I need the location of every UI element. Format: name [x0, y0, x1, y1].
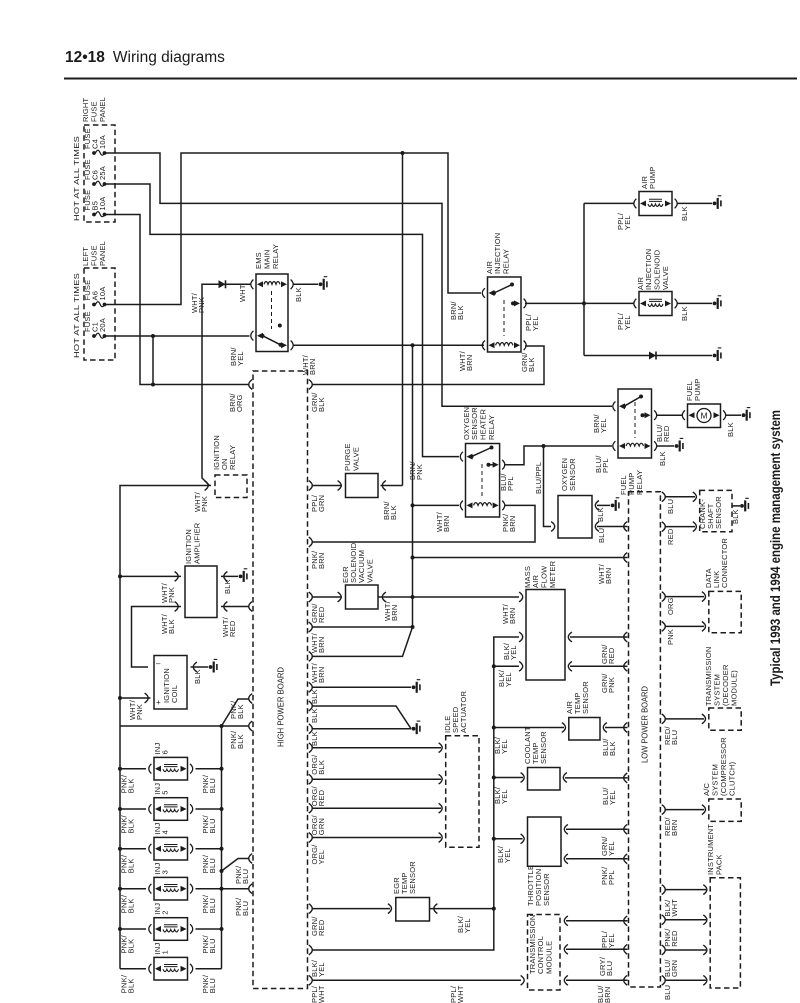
svg-text:BLK: BLK — [193, 669, 202, 684]
svg-text:RED: RED — [662, 425, 671, 442]
wire injector feed bus top — [120, 725, 250, 727]
svg-text:PNK: PNK — [197, 297, 206, 313]
svg-text:6: 6 — [160, 750, 169, 754]
svg-text:HOT AT ALL TIMES: HOT AT ALL TIMES — [72, 273, 81, 358]
fuel pump motor — [697, 409, 711, 423]
svg-text:RED: RED — [670, 930, 679, 947]
hpb terminals right — [309, 380, 313, 390]
wire BLK diagonal to ground 2 — [312, 706, 412, 729]
EMS relay contact — [257, 333, 263, 339]
svg-text:BRN: BRN — [308, 359, 317, 375]
fuse A6 10A — [92, 303, 96, 307]
svg-text:RED: RED — [607, 647, 616, 664]
wire oxygen sensor BLU to low power board — [597, 526, 628, 528]
throttle position sensor box — [528, 817, 562, 866]
diode (EMS coil) — [219, 280, 226, 288]
svg-text:VALVE: VALVE — [352, 447, 361, 471]
svg-text:1: 1 — [160, 950, 169, 954]
lpb terminals right — [662, 492, 666, 502]
wire EMS coil BLK to ground — [293, 283, 318, 285]
svg-text:RED: RED — [317, 789, 326, 806]
svg-text:BLU: BLU — [208, 778, 217, 793]
wire ORG/RED to idle speed actuator — [312, 778, 442, 780]
fuel pump relay contact — [619, 403, 625, 409]
wire PNK/BLU riser 1 — [222, 859, 250, 872]
svg-text:YEL: YEL — [504, 672, 513, 687]
wire lpb BLU to crankshaft sensor — [665, 496, 696, 498]
svg-text:RELAY: RELAY — [271, 244, 280, 269]
wire PPL/GRN to purge valve — [312, 485, 343, 487]
svg-text:BLK: BLK — [236, 704, 245, 719]
svg-text:+: + — [156, 698, 161, 707]
ground (air pump) — [713, 202, 717, 206]
svg-text:SENSOR: SENSOR — [408, 861, 417, 894]
wire lpb RED to crankshaft sensor — [665, 526, 696, 528]
svg-text:YEL: YEL — [317, 850, 326, 865]
fuel pump box — [688, 404, 721, 428]
svg-text:YEL: YEL — [317, 962, 326, 977]
oxygen heater relay coil — [467, 502, 473, 508]
wire INJ2 right — [196, 928, 222, 930]
svg-text:LEFT: LEFT — [81, 247, 90, 266]
wire GRN/RED to EGR temp sensor — [312, 908, 391, 910]
svg-text:20A: 20A — [98, 318, 107, 332]
svg-text:RED: RED — [317, 919, 326, 936]
svg-text:10A: 10A — [98, 197, 107, 211]
ground (fp relay coil) — [675, 444, 679, 448]
wire PNK/BLU riser 2 — [222, 888, 250, 890]
svg-text:BLU: BLU — [208, 938, 217, 953]
wire air temp BLU/BLK to lpb — [605, 727, 628, 729]
svg-text:BRN: BRN — [508, 516, 517, 532]
transmission control module box — [528, 915, 561, 991]
wire EGR temp BLK/YEL — [430, 908, 494, 910]
svg-text:BLK: BLK — [127, 858, 136, 873]
wire INJ2 left — [120, 928, 146, 930]
wire ORG/BLK to idle speed actuator — [312, 747, 442, 749]
wire GRN/BLK to air injection relay coil — [312, 346, 545, 385]
wire INJ5 left — [120, 808, 146, 810]
ground (amplifier) — [239, 575, 243, 579]
svg-text:BLK: BLK — [680, 306, 689, 321]
wire EGR valve WHT/BRN to mass air flow meter — [379, 596, 520, 598]
wire fuse B5 to high power board (BRN/ORG) — [105, 215, 250, 385]
svg-text:RED: RED — [666, 528, 675, 545]
wire INJ3 left — [120, 888, 146, 890]
svg-text:BLU: BLU — [605, 961, 614, 976]
wire GRN/RED to EGR solenoid vacuum valve — [312, 596, 343, 598]
wire fuel pump BLK to ground — [726, 414, 742, 416]
high power board box — [253, 371, 308, 989]
low power board box — [629, 492, 661, 987]
hpb terminals left — [249, 380, 253, 390]
ignition amplifier box — [185, 566, 217, 618]
wire maf GRN/RED to lpb — [570, 636, 628, 638]
svg-text:BLK: BLK — [608, 741, 617, 756]
svg-text:YEL: YEL — [503, 848, 512, 863]
wire solenoid valve BLK to ground — [677, 302, 712, 304]
svg-text:PUMP: PUMP — [693, 379, 702, 401]
svg-text:ACTUATOR: ACTUATOR — [459, 690, 468, 733]
ground (hpb 2) — [412, 727, 416, 731]
svg-text:YEL: YEL — [531, 316, 540, 331]
wire EMS output WHT/BRN to air injection relay coil — [293, 344, 484, 346]
wire EMS coil to diode and ignition-on relay — [202, 284, 251, 485]
crankshaft sensor box — [700, 490, 732, 531]
svg-text:YEL: YEL — [463, 918, 472, 933]
svg-text:BLK: BLK — [127, 978, 136, 993]
svg-text:–: – — [156, 659, 161, 668]
svg-text:GRN: GRN — [317, 818, 326, 835]
svg-text:YEL: YEL — [607, 841, 616, 856]
svg-text:SENSOR: SENSOR — [581, 681, 590, 714]
ground (hpb 1) — [412, 685, 416, 689]
wire BLU/PPL oxygen heater relay output — [504, 446, 612, 465]
svg-text:BLK: BLK — [294, 287, 303, 302]
wire crank BLK to ground — [732, 505, 740, 507]
svg-text:PANEL: PANEL — [98, 241, 107, 266]
air pump — [639, 192, 672, 216]
wire WHT/BRN hpb lower to v2 — [312, 627, 413, 656]
svg-text:ORG: ORG — [235, 394, 244, 412]
svg-text:BLU: BLU — [208, 818, 217, 833]
svg-text:BLK: BLK — [389, 505, 398, 520]
svg-text:BLU/PPL: BLU/PPL — [534, 462, 543, 494]
svg-text:BLU: BLU — [670, 730, 679, 745]
svg-text:BRN: BRN — [603, 987, 612, 1003]
svg-text:COIL: COIL — [170, 685, 179, 703]
svg-text:YEL: YEL — [500, 739, 509, 754]
wire WHT/BRN to oxygen heater relay coil — [413, 504, 460, 506]
svg-text:BRN: BRN — [604, 568, 613, 584]
svg-text:BLK: BLK — [223, 579, 232, 594]
wire BLK/YEL to coolant temp sensor — [494, 777, 523, 779]
air injection solenoid valve — [639, 292, 672, 316]
svg-text:SENSOR: SENSOR — [539, 731, 548, 764]
transmission system box — [709, 708, 741, 730]
svg-text:VALVE: VALVE — [661, 266, 670, 290]
wire amplifier BLK to ground — [221, 575, 238, 577]
wire lpb PNK/RED to instrument pack — [665, 919, 707, 921]
injector INJ4 — [154, 837, 188, 860]
svg-text:BLU: BLU — [663, 985, 672, 1000]
fuse C6 25A — [92, 182, 96, 186]
svg-text:BLK: BLK — [127, 819, 136, 834]
ground (EMS coil) — [319, 282, 323, 286]
wire coil BLK to ground — [191, 666, 209, 668]
svg-text:5: 5 — [160, 790, 169, 794]
wire INJ6 left — [120, 768, 146, 770]
injector INJ3 — [154, 877, 188, 900]
svg-text:Typical 1993 and 1994 engine m: Typical 1993 and 1994 engine management … — [768, 410, 783, 686]
svg-text:BRN: BRN — [317, 667, 326, 683]
air injection relay coil — [489, 342, 495, 348]
left fuse panel box — [84, 268, 115, 360]
wire maf GRN/PNK to lpb — [570, 665, 628, 667]
injector INJ2 — [154, 918, 188, 941]
wire BLK to ground 1 — [312, 686, 412, 688]
ground (oxygen sensor) — [611, 504, 615, 508]
svg-text:PNK: PNK — [415, 464, 424, 480]
svg-text:M: M — [700, 411, 707, 421]
air injection relay contact — [489, 290, 495, 296]
mass air flow meter box — [526, 590, 565, 681]
svg-text:GRN: GRN — [670, 960, 679, 977]
wire BLK/YEL to air temp sensor — [494, 727, 564, 729]
wire INJ5 right — [196, 808, 222, 810]
EGR temp sensor box — [396, 898, 430, 922]
svg-text:SENSOR: SENSOR — [568, 458, 577, 491]
relay OXYGEN SENSOR HEATER RELAY — [466, 444, 500, 518]
ignition coil box — [154, 656, 187, 710]
svg-text:MODULE: MODULE — [545, 941, 554, 974]
EGR solenoid vacuum valve box — [346, 585, 379, 609]
idle speed actuator box — [446, 736, 479, 848]
wire lpb PNK to data link connector — [665, 625, 705, 627]
svg-text:BRN: BRN — [317, 553, 326, 569]
wire lpb BLU/GRN to instrument pack — [665, 949, 707, 951]
svg-text:BLK: BLK — [658, 451, 667, 466]
svg-text:HIGH POWER BOARD: HIGH POWER BOARD — [277, 667, 286, 747]
svg-text:WHT: WHT — [456, 985, 465, 1003]
svg-text:YEL: YEL — [500, 789, 509, 804]
svg-text:BLK: BLK — [310, 708, 319, 723]
wire coil + feed — [120, 697, 151, 699]
wire INJ6 right — [196, 768, 222, 770]
ground (solenoid valve) — [713, 302, 717, 306]
diode (air line) — [649, 352, 656, 360]
svg-text:BLU: BLU — [666, 499, 675, 514]
wire tcm BLU/BRN to lpb — [566, 979, 628, 981]
svg-text:BLU: BLU — [597, 528, 606, 543]
wire lpb BLK/WHT to instrument pack — [665, 889, 707, 891]
wire PPL/YEL distribution — [584, 203, 712, 355]
svg-text:BLK: BLK — [317, 397, 326, 412]
air temp sensor box — [569, 718, 600, 741]
wire fuse C4 to fuel pump relay — [105, 153, 613, 406]
svg-text:BLK: BLK — [726, 422, 735, 437]
purge valve box — [346, 474, 379, 498]
svg-text:SENSOR: SENSOR — [542, 873, 551, 906]
a/c system box — [709, 799, 741, 821]
svg-text:RELAY: RELAY — [502, 249, 511, 274]
svg-text:YEL: YEL — [623, 215, 632, 230]
svg-text:YEL: YEL — [608, 790, 617, 805]
svg-text:PNK: PNK — [666, 629, 675, 645]
svg-text:BLU: BLU — [208, 978, 217, 993]
svg-text:PNK: PNK — [607, 677, 616, 693]
svg-text:25A: 25A — [98, 166, 107, 180]
svg-text:YEL: YEL — [236, 351, 245, 366]
wire WHT/BRN to low power board — [413, 557, 628, 559]
fuse C4 10A — [92, 151, 96, 155]
wire coolant BLU/YEL to lpb — [565, 777, 628, 779]
svg-text:BLK: BLK — [310, 731, 319, 746]
svg-text:WHT: WHT — [317, 985, 326, 1003]
wire fuse C6 to oxygen sensor heater relay — [105, 184, 460, 457]
svg-text:BLK: BLK — [127, 898, 136, 913]
svg-text:RELAY: RELAY — [228, 445, 237, 470]
svg-text:4: 4 — [160, 830, 169, 834]
oxygen heater relay contact — [467, 454, 473, 460]
svg-text:VALVE: VALVE — [365, 559, 374, 583]
wire BLK to ground 2 — [312, 728, 412, 730]
svg-text:RED: RED — [317, 606, 326, 623]
lpb terminals left — [624, 522, 628, 532]
injector INJ1 — [154, 957, 188, 980]
svg-text:3: 3 — [160, 870, 169, 874]
svg-text:BLU: BLU — [241, 869, 250, 884]
coolant temp sensor box — [528, 768, 561, 791]
svg-text:ORG: ORG — [666, 597, 675, 615]
svg-text:BRN: BRN — [670, 820, 679, 836]
svg-text:RIGHT: RIGHT — [81, 97, 90, 122]
ground (fuel pump) — [742, 413, 746, 417]
wire maf BLK/YEL 2 — [494, 665, 519, 667]
wire lpb ORG to data link connector — [665, 596, 705, 598]
wire PNK/BLK riser to high power board — [222, 699, 250, 726]
wire injector right bus — [221, 726, 223, 969]
svg-text:BLK: BLK — [167, 619, 176, 634]
svg-text:FUSE: FUSE — [90, 101, 99, 122]
svg-text:PURGE: PURGE — [343, 443, 352, 471]
svg-text:BRN: BRN — [317, 637, 326, 653]
wire fp relay coil BLK to ground — [657, 445, 674, 447]
wire throttle GRN/YEL to lpb — [566, 828, 628, 830]
svg-text:PUMP: PUMP — [648, 167, 657, 189]
wire BLK/YEL to throttle sensor — [494, 838, 523, 840]
wire INJ4 left — [120, 848, 146, 850]
relay FUEL PUMP RELAY — [618, 389, 652, 458]
instrument pack box — [710, 878, 740, 988]
wire WHT/BRN distribution vertical — [412, 345, 414, 627]
wire throttle PNK/PPL to lpb — [566, 858, 628, 860]
wire lpb RED/BLU to transmission system — [665, 718, 705, 720]
relay IGNITION ON RELAY — [215, 475, 247, 498]
wire WHT/BRN hpb to v2 junction — [312, 626, 413, 628]
wire lpb RED/BRN to a/c system — [665, 809, 705, 811]
svg-text:CONNECTOR: CONNECTOR — [720, 538, 729, 588]
wire ORG/YEL to idle speed actuator — [312, 837, 442, 839]
svg-text:BLK: BLK — [527, 357, 536, 372]
svg-text:YEL: YEL — [509, 645, 518, 660]
wire ignition-on relay output bus — [120, 486, 211, 727]
oxygen sensor box — [558, 496, 592, 539]
svg-text:BLK: BLK — [310, 689, 319, 704]
svg-text:BRN: BRN — [508, 608, 517, 624]
wire amplifier WHT/RED to high power board — [221, 606, 250, 608]
svg-text:FUSE: FUSE — [90, 245, 99, 266]
wire air injection relay output PPL/YEL — [525, 302, 584, 304]
svg-text:BRN: BRN — [390, 605, 399, 621]
svg-text:PANEL: PANEL — [98, 97, 107, 122]
svg-text:PNK: PNK — [167, 587, 176, 603]
injector INJ6 — [154, 757, 188, 780]
wire lpb BLU to instrument pack — [665, 979, 707, 981]
wire injector left bus — [119, 726, 121, 969]
svg-text:PNK: PNK — [200, 496, 209, 512]
svg-text:PNK: PNK — [135, 704, 144, 720]
wire tcm PPL/YEL to lpb — [566, 920, 628, 922]
wire C1/BRN-ORG stub — [152, 336, 154, 385]
svg-text:RELAY: RELAY — [487, 415, 496, 440]
svg-text:WHT: WHT — [670, 899, 679, 917]
svg-text:AMPLIFIER: AMPLIFIER — [192, 522, 201, 564]
wire BLK/YEL return bus — [312, 637, 520, 950]
data link connector box — [709, 591, 741, 632]
wire fuel pump relay output BLU/RED — [657, 414, 682, 416]
svg-text:BLK: BLK — [127, 778, 136, 793]
ground (air line) — [713, 354, 717, 358]
node WHT/BRN junction — [411, 343, 415, 347]
wire fuse A6 to air injection relay — [105, 153, 482, 305]
svg-text:10A: 10A — [98, 135, 107, 149]
svg-text:BLK: BLK — [596, 507, 605, 522]
svg-text:BLK: BLK — [680, 206, 689, 221]
svg-text:GRN: GRN — [317, 495, 326, 512]
svg-text:PPL: PPL — [506, 476, 515, 491]
svg-text:BLK: BLK — [236, 734, 245, 749]
svg-text:2: 2 — [160, 910, 169, 914]
svg-text:BRN: BRN — [442, 516, 451, 532]
svg-text:BLU: BLU — [208, 858, 217, 873]
svg-text:MODULE): MODULE) — [730, 670, 739, 706]
relay AIR INJECTION RELAY — [488, 277, 522, 352]
wire oxygen sensor BLK to ground — [597, 504, 610, 506]
svg-text:BLK: BLK — [731, 509, 740, 524]
wire fuse C1 to EMS main relay — [105, 335, 250, 337]
fuse B5 10A — [92, 213, 96, 217]
svg-text:YEL: YEL — [607, 933, 616, 948]
wire amplifier WHT/BLK to coil — [132, 607, 182, 668]
svg-text:BLU: BLU — [208, 898, 217, 913]
svg-text:RED: RED — [228, 620, 237, 637]
relay EMS MAIN RELAY — [256, 274, 288, 352]
fuse C1 20A — [92, 334, 96, 338]
header rule — [64, 78, 797, 80]
wire air pump BLK to ground — [677, 202, 712, 204]
svg-text:BLK: BLK — [317, 760, 326, 775]
wire PNK/BRN to oxygen heater relay coil — [312, 505, 536, 542]
fuel pump relay coil — [619, 443, 625, 449]
node A6/purge junction — [401, 151, 405, 155]
wire PPL/WHT to transmission control module — [312, 979, 522, 981]
svg-text:SENSOR: SENSOR — [714, 496, 723, 529]
svg-text:PPL: PPL — [601, 458, 610, 473]
wire INJ1 right — [196, 968, 222, 970]
svg-text:YEL: YEL — [623, 315, 632, 330]
wire INJ3 right — [196, 888, 222, 890]
svg-text:PACK: PACK — [714, 854, 723, 875]
wire ORG/GRN to idle speed actuator — [312, 807, 442, 809]
svg-text:PPL: PPL — [607, 870, 616, 885]
svg-text:BLU: BLU — [241, 901, 250, 916]
svg-text:12•18Wiring diagrams: 12•18Wiring diagrams — [65, 49, 225, 66]
svg-text:BLK: BLK — [456, 305, 465, 320]
svg-text:WHT: WHT — [238, 284, 247, 302]
wire amplifier WHT/PNK — [120, 575, 181, 577]
wire tcm GRY/BLU to lpb — [566, 948, 628, 950]
right fuse panel box — [84, 125, 115, 222]
ground (crankshaft sensor) — [740, 504, 744, 508]
svg-text:BLK: BLK — [127, 939, 136, 954]
svg-text:YEL: YEL — [599, 418, 608, 433]
svg-text:BRN: BRN — [465, 355, 474, 371]
svg-text:METER: METER — [548, 560, 557, 588]
wire BLU/PPL drop to oxygen sensor — [544, 446, 552, 527]
svg-text:CLUTCH): CLUTCH) — [728, 761, 737, 796]
ground (ignition coil) — [209, 665, 213, 669]
